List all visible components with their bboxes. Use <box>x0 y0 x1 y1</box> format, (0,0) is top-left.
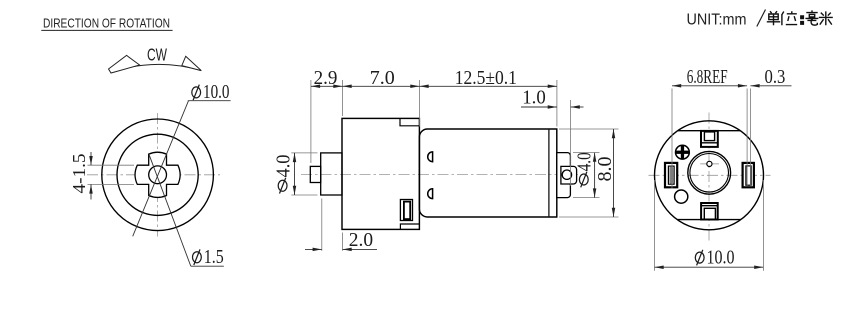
dimension phi4.0 left extension lines <box>291 152 317 154</box>
rear bearing boss outer circle <box>688 151 731 194</box>
leader line for phi1.5 <box>149 155 191 266</box>
right view horizontal centerline <box>649 174 771 176</box>
svg-text:2.9: 2.9 <box>314 68 338 89</box>
rear bearing boss inner circle <box>690 154 729 193</box>
middle view centerline <box>301 174 578 176</box>
pump head body <box>342 118 419 229</box>
svg-text:4.0: 4.0 <box>273 155 294 178</box>
top mounting tab outer <box>701 131 718 147</box>
pump head bottom-right step <box>400 224 419 229</box>
right view vertical centerline <box>708 113 710 243</box>
rear shaft stub <box>561 166 577 184</box>
svg-text:7.0: 7.0 <box>370 68 395 89</box>
dimension 2.0 extension lines <box>321 199 323 251</box>
svg-text:10.0: 10.0 <box>707 248 735 269</box>
dimension 8.0 dimension line <box>613 129 615 217</box>
eccentric hole circle <box>707 161 712 166</box>
right view outer circle (phi 10.0) <box>655 121 764 230</box>
right view top flat chord <box>678 130 741 132</box>
dimension 0.3 extension lines <box>746 89 748 186</box>
svg-text:4-1.5: 4-1.5 <box>69 153 89 193</box>
label phi10.0 (left view) <box>192 85 201 101</box>
left view vertical centerline <box>157 113 159 237</box>
CW rotation arc <box>110 64 201 72</box>
dimension text phi4.0 right <box>579 172 588 188</box>
svg-text:DIRECTION OF ROTATION: DIRECTION OF ROTATION <box>43 16 170 31</box>
bottom mounting tab inner <box>704 208 715 219</box>
dimension 0.3 line <box>750 85 791 87</box>
left terminal inner <box>668 166 674 184</box>
svg-text:1.5: 1.5 <box>204 247 224 268</box>
dimension 6.8REF line <box>672 85 747 87</box>
left terminal metal strip <box>669 167 673 184</box>
left terminal outer <box>665 163 677 187</box>
pump head top-right step <box>400 118 419 125</box>
title underline <box>41 29 172 31</box>
svg-text:4.0: 4.0 <box>575 152 596 171</box>
dimension 1.0 extension line <box>570 100 572 186</box>
polarity plus marker <box>676 145 690 159</box>
svg-text:10.0: 10.0 <box>203 82 230 103</box>
top mounting tab lower line <box>701 142 718 144</box>
right terminal outer <box>743 163 754 187</box>
left view inner circle <box>117 134 198 215</box>
top dimension extension lines <box>310 80 312 163</box>
pump port outer rectangle <box>400 200 412 221</box>
dimension text phi4.0 left <box>278 178 287 194</box>
right terminal inner <box>746 166 751 185</box>
motor body end flange line <box>548 130 550 217</box>
dimension 6.8REF extension line <box>671 89 673 189</box>
svg-text:1.0: 1.0 <box>522 87 546 108</box>
CW left arrowhead <box>109 55 140 73</box>
motor can crimp tab lower <box>428 189 433 199</box>
CW right arrowhead <box>182 56 202 70</box>
svg-text:2.0: 2.0 <box>349 230 373 251</box>
dimension 4-1.5 extension lines <box>88 164 135 166</box>
eccentric hole tick line <box>700 163 719 165</box>
motor can crimp tab upper <box>428 152 433 162</box>
dimension 1.0 lines <box>521 106 557 108</box>
left view horizontal centerline <box>87 174 220 176</box>
dimension phi4.0 left dimension line <box>294 153 296 195</box>
dimension phi10.0 line <box>655 266 764 268</box>
svg-text:6.8REF: 6.8REF <box>687 67 728 88</box>
left view outer circle (phi 10.0 body) <box>102 119 214 231</box>
bottom mounting tab upper line <box>701 205 718 207</box>
bottom mounting tab outer <box>701 203 718 220</box>
top mounting tab inner <box>704 132 714 141</box>
label phi1.5 (left view) <box>193 249 202 265</box>
svg-text:0.3: 0.3 <box>765 67 786 88</box>
right view bottom flat chord <box>677 219 741 221</box>
rear bearing boss (phi 4.0) <box>557 153 571 198</box>
svg-text:UNIT:mm: UNIT:mm <box>687 11 747 28</box>
pump port inner rectangle <box>404 202 410 220</box>
dimension phi4.0 right extension lines <box>573 152 600 154</box>
dimension 8.0 extension lines <box>559 128 619 130</box>
leader line for phi10.0 <box>133 101 189 237</box>
svg-text:8.0: 8.0 <box>595 157 616 182</box>
shaft boss (phi 4.0) <box>321 153 342 195</box>
center shaft circle (phi 1.5) <box>149 166 167 184</box>
shaft <box>310 166 320 182</box>
dimension phi4.0 right dimension line <box>594 153 596 198</box>
dimension 2.0 lines <box>305 248 322 250</box>
svg-text:CW: CW <box>147 45 167 65</box>
dimension 4-1.5 dimension line and arrows <box>90 152 92 165</box>
rear shaft circle <box>562 170 571 179</box>
vent hole circle <box>675 190 688 203</box>
unit note chinese characters <box>767 10 833 25</box>
dimension text phi10.0 right view <box>695 250 704 266</box>
dimension phi10.0 extension lines <box>654 180 656 271</box>
top dimension line <box>311 85 557 87</box>
cross slot hub (4-1.5 slots) <box>135 152 180 197</box>
svg-text:12.5±0.1: 12.5±0.1 <box>455 68 517 89</box>
motor body (12.5 long) <box>419 129 556 217</box>
